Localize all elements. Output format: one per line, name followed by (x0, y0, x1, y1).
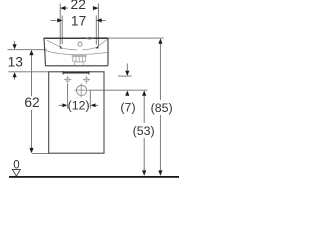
bowl bottom right (82, 48, 96, 50)
drain circle (74, 83, 90, 97)
arrow 85 top (158, 38, 162, 43)
fixing point right (83, 76, 90, 84)
arrow 13 bottom (13, 72, 17, 77)
arrow 17 left (57, 18, 62, 22)
svg-text:(85): (85) (151, 101, 173, 115)
datum triangle (12, 170, 20, 177)
tap hole (87, 37, 93, 39)
svg-text:(7): (7) (120, 100, 135, 114)
basin rim top (44, 38, 108, 40)
arrow 62 bottom (29, 148, 33, 153)
arrow 7 bottom (125, 91, 129, 96)
dim 17 line tails (51, 19, 106, 21)
svg-text:13: 13 (8, 54, 24, 69)
bowl leader arrow right (96, 45, 99, 49)
arrowheads (13, 6, 163, 176)
arrow 62 top (29, 50, 33, 55)
dim 22 line (60, 7, 98, 9)
arrow 12 right (91, 103, 96, 107)
arrow 85 bottom (158, 170, 162, 175)
dim 22 ext lines (60, 4, 98, 47)
cabinet handle (63, 71, 89, 74)
basin rim line (45, 37, 108, 39)
fixing point left (64, 76, 72, 84)
ext line drain center height (89, 89, 148, 91)
dim 62 line (31, 55, 33, 148)
basin right face (107, 38, 109, 66)
dim 53 line (143, 96, 145, 171)
arrow 7 top (125, 71, 129, 76)
arrow 12 left (62, 103, 67, 107)
arrow 22 left (60, 6, 65, 10)
drain dome (78, 42, 82, 46)
svg-text:(12): (12) (68, 98, 90, 112)
cabinet box (49, 72, 104, 153)
ext line A basin underside rim (8, 49, 47, 51)
dim 7 stub (126, 64, 128, 71)
basin outline (44, 38, 108, 66)
dim 13 stubs (14, 41, 16, 80)
svg-text:62: 62 (24, 95, 39, 110)
waste ribs (73, 57, 86, 62)
waste tailpipe (75, 62, 84, 65)
floor line (9, 176, 179, 178)
bowl bottom left (63, 48, 78, 50)
arrow 53 bottom (142, 170, 146, 175)
svg-text:0: 0 (13, 160, 19, 172)
bowl leader arrow left (59, 45, 62, 49)
arrow 13 top (13, 44, 17, 49)
ext line B cabinet top left extension (8, 71, 48, 73)
arrow 22 right (93, 6, 98, 10)
dim 12 ext left from fixing point (67, 84, 69, 109)
basin underside bulge curve (45, 50, 107, 54)
dim 7 top ext line (118, 75, 132, 77)
waste flange (72, 56, 87, 57)
ext line basin rim right for 85 (108, 37, 163, 39)
arrow 17 right (96, 18, 101, 22)
dim 85 line (159, 43, 161, 171)
bowl inner front slope (47, 40, 63, 48)
svg-text:17: 17 (71, 14, 86, 29)
basin left face (44, 39, 45, 66)
bowl inner back slope (96, 39, 107, 47)
svg-text:22: 22 (71, 0, 86, 12)
ext line cabinet bottom left (32, 152, 49, 154)
dim 12 ext right (89, 90, 91, 108)
dim 12 line tails (59, 104, 99, 106)
waste bottom (73, 60, 86, 63)
svg-text:(53): (53) (133, 124, 155, 138)
arrow 53 top (142, 91, 146, 96)
dim 17 ext lines (62, 16, 96, 45)
basin bottom (45, 65, 108, 67)
